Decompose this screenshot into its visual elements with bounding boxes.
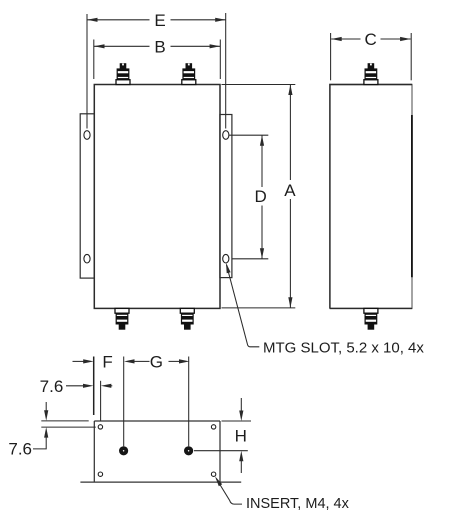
dimension D — [229, 135, 268, 259]
dimension B — [94, 40, 221, 80]
svg-text:C: C — [365, 30, 377, 49]
dimension A — [222, 85, 296, 308]
dimension C — [331, 33, 412, 80]
mounting slot bottom-right — [223, 254, 229, 263]
terminal stud front top-right — [182, 63, 196, 84]
right mounting flange — [220, 115, 232, 278]
front view enclosure body — [94, 85, 220, 309]
svg-text:H: H — [235, 427, 247, 446]
svg-text:7.6: 7.6 — [40, 377, 64, 396]
leader INSERT — [216, 479, 242, 505]
terminal stud front bottom-right — [180, 308, 194, 329]
svg-text:G: G — [150, 353, 163, 372]
left mounting flange — [80, 114, 94, 278]
insert hole top-right — [211, 425, 215, 429]
dimension E — [87, 13, 226, 129]
dimension 7.6 vertical — [33, 402, 96, 449]
side view body — [330, 85, 412, 309]
dimension H — [194, 398, 251, 473]
svg-text:INSERT, M4, 4x: INSERT, M4, 4x — [246, 496, 350, 512]
dimension G — [134, 357, 189, 447]
terminal stud side top — [364, 63, 378, 84]
mounting slot top-right — [223, 131, 229, 140]
terminal stud side bottom — [364, 308, 378, 329]
dimension 7.6 horizontal — [66, 381, 112, 421]
leader MTG SLOT — [227, 265, 260, 347]
svg-text:A: A — [284, 181, 296, 200]
insert hole top-left — [98, 425, 102, 429]
svg-text:7.6: 7.6 — [8, 440, 32, 459]
svg-text:E: E — [154, 11, 165, 30]
mounting slot bottom-left — [84, 254, 90, 263]
terminal stud front bottom-left — [115, 308, 129, 329]
svg-text:D: D — [254, 187, 266, 206]
insert hole bottom-left — [98, 472, 102, 476]
bottom view base edge line — [80, 481, 241, 483]
svg-text:F: F — [102, 353, 112, 372]
terminal stud front top-left — [116, 63, 130, 84]
bottom view plate — [94, 421, 220, 482]
terminal 1 bottom view — [119, 446, 128, 455]
svg-text:B: B — [154, 38, 165, 57]
svg-text:MTG SLOT, 5.2 x 10, 4x: MTG SLOT, 5.2 x 10, 4x — [263, 339, 424, 356]
mounting slot top-left — [84, 131, 90, 140]
terminal 2 bottom view — [184, 446, 193, 455]
side view flange edge line — [411, 115, 413, 277]
insert hole bottom-right — [211, 472, 215, 476]
dimension F — [93, 357, 95, 416]
